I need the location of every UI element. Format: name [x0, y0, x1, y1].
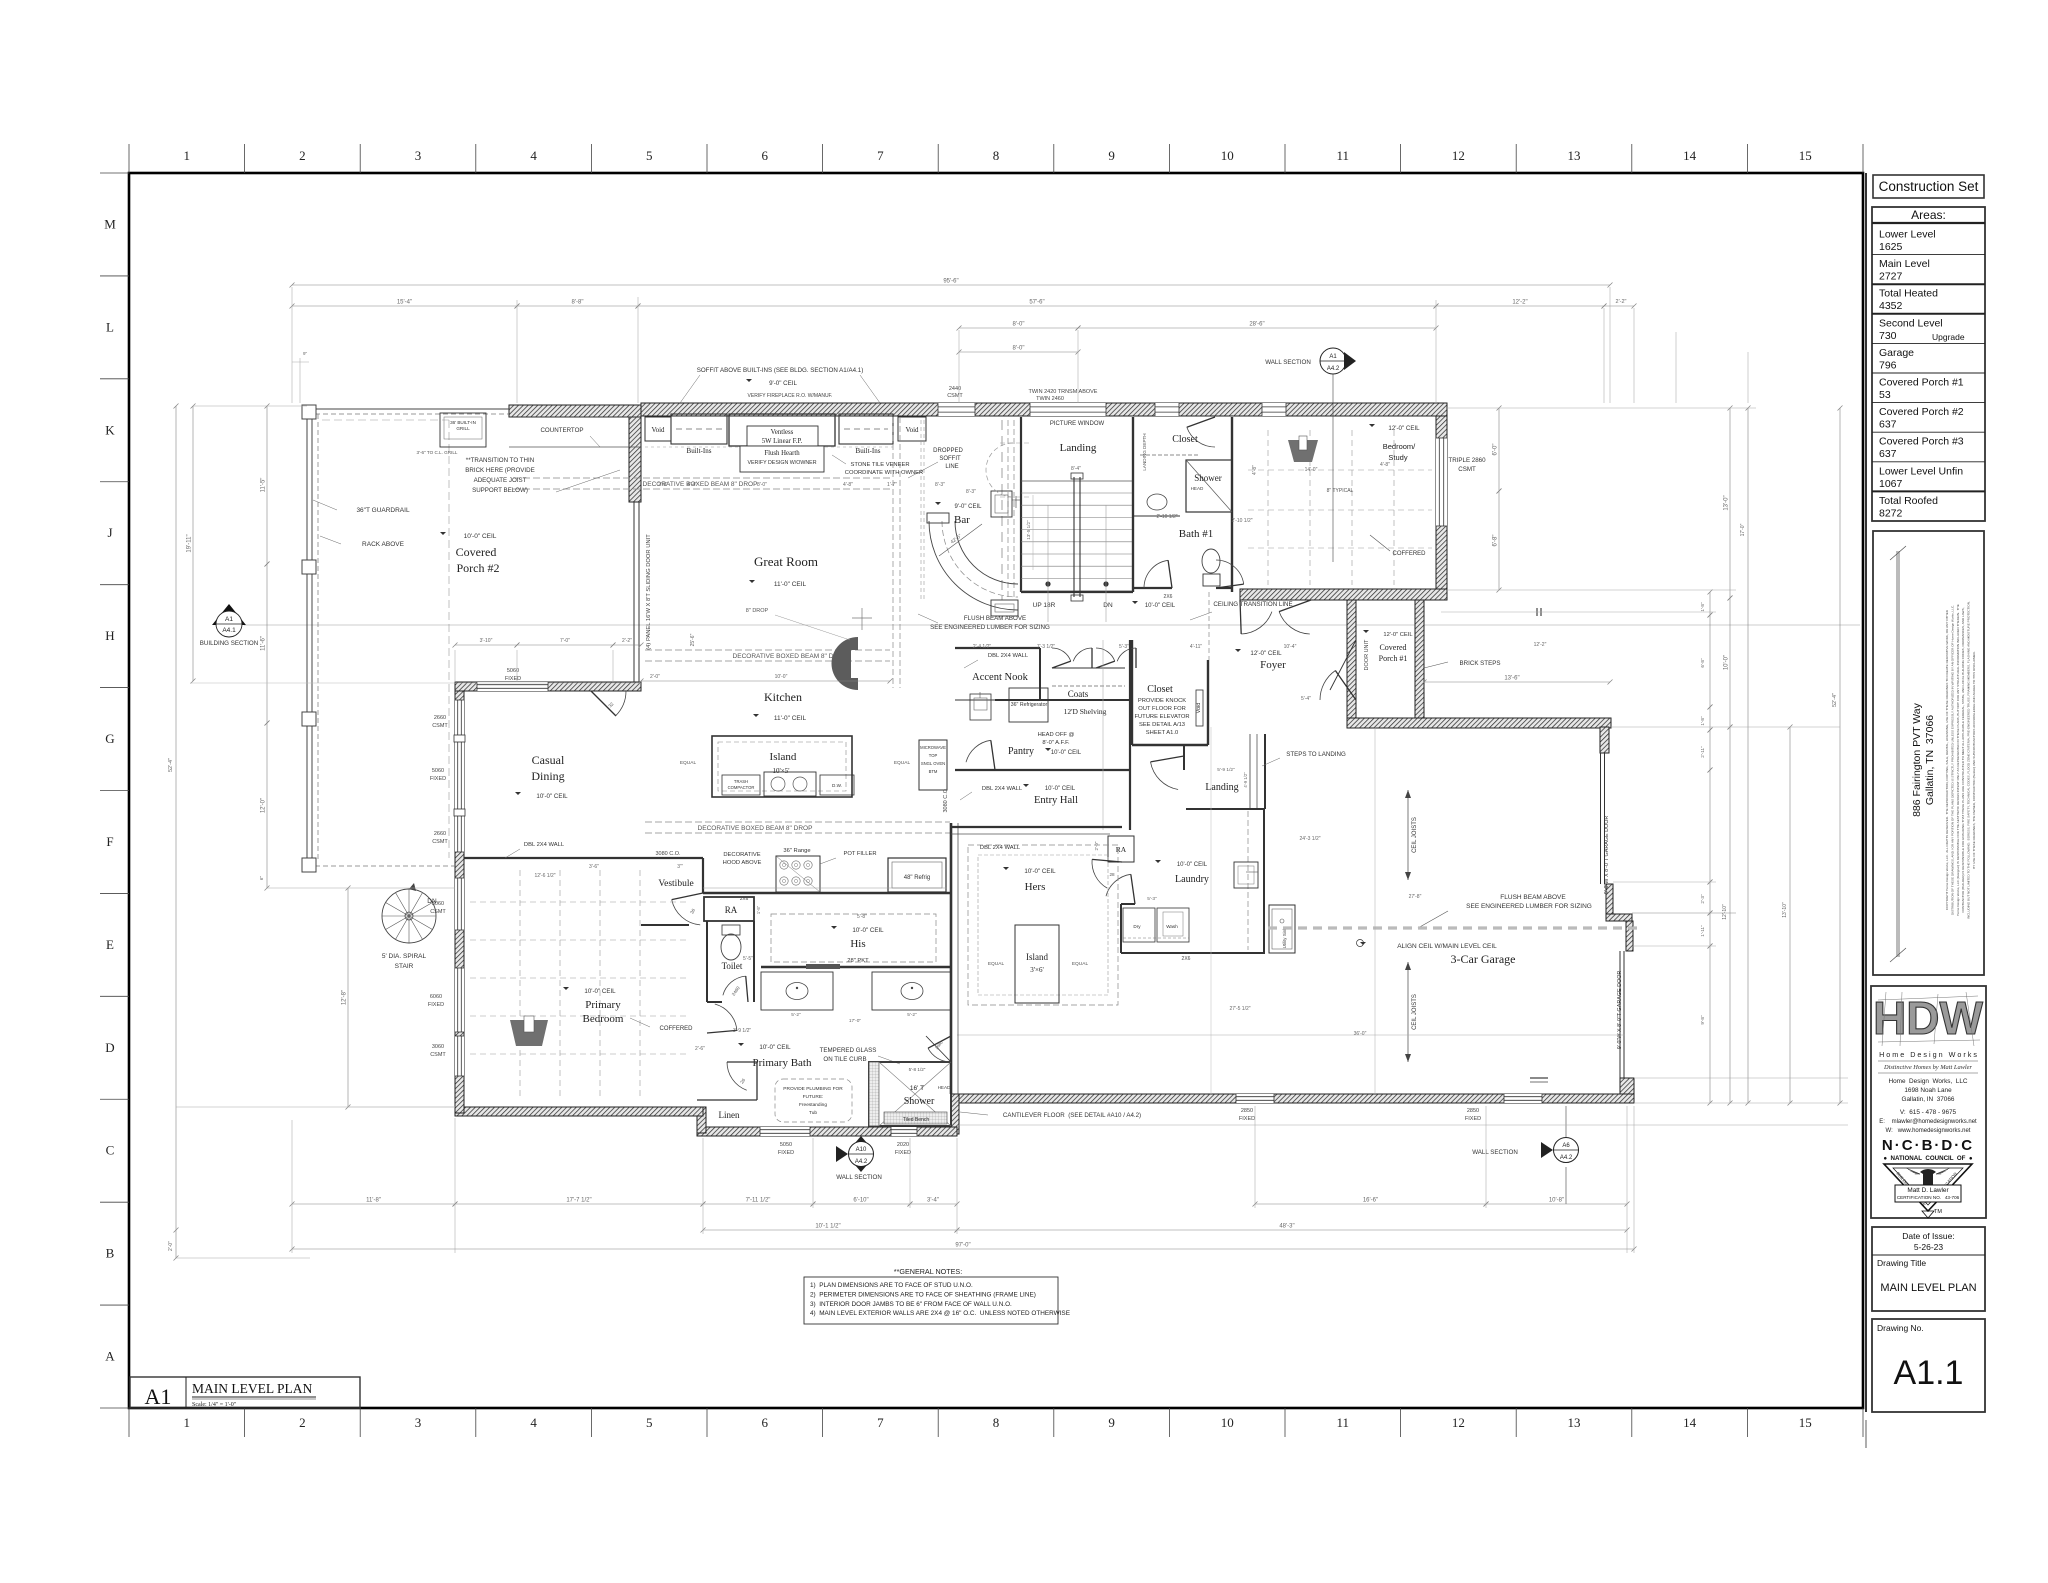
svg-text:637: 637 [1879, 419, 1897, 431]
ceiling transition dashed [1208, 592, 1210, 660]
svg-text:● NATIONAL COUNCIL OF ●: ● NATIONAL COUNCIL OF ● [1883, 1155, 1973, 1162]
svg-text:2020: 2020 [897, 1142, 909, 1148]
svg-text:28: 28 [1109, 872, 1115, 877]
svg-text:INCLUDING BUT NOT LIMITED TO T: INCLUDING BUT NOT LIMITED TO THE FOLLOWI… [1967, 601, 1971, 919]
svg-text:9'-0" CEIL: 9'-0" CEIL [769, 380, 797, 387]
svg-text:9: 9 [1108, 148, 1115, 163]
svg-text:Primary Bath: Primary Bath [753, 1057, 812, 1069]
svg-text:12'-10": 12'-10" [1722, 904, 1728, 920]
svg-text:2'-10 1/2": 2'-10 1/2" [1156, 514, 1177, 520]
svg-text:Gallatin, TN 37066: Gallatin, TN 37066 [1924, 715, 1936, 805]
svg-text:DROPPED: DROPPED [933, 448, 963, 454]
svg-text:3'-10": 3'-10" [480, 638, 493, 644]
svg-text:Built-Ins: Built-Ins [687, 447, 712, 455]
svg-text:6: 6 [762, 148, 769, 163]
svg-text:SEE ENGINEERED LUMBER FOR SIZI: SEE ENGINEERED LUMBER FOR SIZING [1466, 903, 1592, 910]
svg-text:Ventless: Ventless [771, 429, 794, 436]
svg-text:3'×6': 3'×6' [1030, 966, 1043, 974]
svg-text:BY USE OF THESE DRAWINGS, THE: BY USE OF THESE DRAWINGS, THE OWNER, CON… [1972, 651, 1976, 869]
svg-text:Kitchen: Kitchen [764, 690, 802, 704]
fireplace [729, 414, 835, 446]
svg-text:Home Design Works, LLC: Home Design Works, LLC [1888, 1078, 1967, 1085]
svg-text:8'-0": 8'-0" [1013, 322, 1025, 328]
svg-text:V: 615 - 478 - 9675: V: 615 - 478 - 9675 [1900, 1109, 1957, 1116]
front door leaf [1330, 640, 1356, 690]
svg-text:12'-0" CEIL: 12'-0" CEIL [1250, 650, 1282, 657]
svg-text:Covered: Covered [456, 545, 497, 559]
svg-text:SOFFIT ABOVE BUILT-INS (SEE BL: SOFFIT ABOVE BUILT-INS (SEE BLDG. SECTIO… [697, 367, 864, 374]
svg-text:4'-8": 4'-8" [843, 482, 853, 488]
window 5060 FIXED dining [477, 682, 548, 691]
svg-text:1625: 1625 [1879, 241, 1903, 253]
svg-text:13'-6": 13'-6" [1504, 676, 1519, 682]
svg-text:6": 6" [259, 876, 264, 881]
garage door 2 east [1619, 951, 1621, 1078]
built-ins along great room north wall [671, 414, 727, 444]
svg-text:15: 15 [1799, 1415, 1812, 1430]
svg-text:SEE ENGINEERED LUMBER FOR SIZI: SEE ENGINEERED LUMBER FOR SIZING [930, 624, 1050, 631]
svg-text:52'-4": 52'-4" [168, 758, 174, 772]
svg-text:10'-0" CEIL: 10'-0" CEIL [759, 1044, 791, 1051]
svg-text:Drawing No.: Drawing No. [1877, 1323, 1924, 1333]
svg-text:OUT FLOOR FOR: OUT FLOOR FOR [1138, 706, 1186, 712]
svg-text:Drawing Title: Drawing Title [1877, 1258, 1926, 1268]
stair handrail [1073, 477, 1075, 597]
bath door arc [715, 1004, 737, 1030]
toilet fixture [722, 925, 740, 935]
svg-text:Landing: Landing [1060, 442, 1097, 454]
svg-text:6'-10": 6'-10" [853, 1198, 868, 1204]
svg-text:8'-0": 8'-0" [757, 482, 767, 488]
svg-text:1'-11": 1'-11" [1700, 925, 1705, 937]
svg-text:5'-2": 5'-2" [791, 1012, 801, 1018]
svg-text:2'-10 1/2": 2'-10 1/2" [1231, 518, 1252, 524]
wall: primary bath south wall [697, 1127, 957, 1136]
svg-text:FIXED: FIXED [1239, 1116, 1255, 1122]
svg-text:12'-0": 12'-0" [261, 798, 267, 813]
svg-text:EQUAL: EQUAL [988, 961, 1005, 967]
svg-text:Second Level: Second Level [1879, 317, 1943, 329]
svg-text:DECORATIVE: DECORATIVE [723, 852, 760, 858]
svg-text:CSMT: CSMT [430, 909, 446, 915]
svg-text:4: 4 [530, 148, 537, 163]
svg-text:9'-0" CEIL: 9'-0" CEIL [955, 504, 983, 510]
svg-text:Tiled Bench: Tiled Bench [903, 1117, 929, 1123]
svg-text:CSMT: CSMT [432, 839, 448, 845]
bedroom study coffered grid [1267, 430, 1269, 585]
svg-text:M: M [104, 216, 116, 231]
ceil joists arrows [1407, 790, 1409, 880]
wall: garage east top stub [1600, 727, 1609, 753]
svg-text:CSMT: CSMT [1458, 466, 1476, 473]
svg-text:RACK ABOVE: RACK ABOVE [362, 541, 405, 548]
svg-text:9'-0"W X 8'-0"T GARAGE DOOR: 9'-0"W X 8'-0"T GARAGE DOOR [1617, 971, 1623, 1050]
svg-text:2440: 2440 [949, 386, 961, 392]
svg-text:1698 Noah Lane: 1698 Noah Lane [1904, 1087, 1952, 1094]
svg-text:ALIGN CEIL W/MAIN LEVEL CEIL: ALIGN CEIL W/MAIN LEVEL CEIL [1397, 943, 1497, 950]
svg-text:TEMPERED GLASS: TEMPERED GLASS [820, 1047, 877, 1054]
utility sink [1269, 905, 1295, 953]
kitchen counter dashes upper [645, 446, 893, 448]
svg-text:8" DROP: 8" DROP [746, 608, 769, 614]
svg-text:9: 9 [1108, 1415, 1115, 1430]
svg-text:12: 12 [1452, 148, 1465, 163]
wall: garage south wall [957, 1094, 1634, 1103]
svg-text:28'-6": 28'-6" [1249, 322, 1264, 328]
svg-text:TWIN 2460: TWIN 2460 [1036, 396, 1064, 402]
svg-text:7'-11 1/2": 7'-11 1/2" [746, 1198, 771, 1204]
svg-text:Lower Level: Lower Level [1879, 229, 1936, 241]
sliding door west of great room [633, 502, 635, 682]
svg-text:PROVIDE KNOCK: PROVIDE KNOCK [1138, 698, 1186, 704]
right dimension lines [1498, 408, 1500, 491]
svg-text:POT FILLER: POT FILLER [843, 851, 876, 857]
svg-text:48" Refrig: 48" Refrig [904, 875, 930, 881]
svg-text:FLUSH BEAM ABOVE: FLUSH BEAM ABOVE [1500, 894, 1566, 901]
spiral stair [382, 889, 436, 943]
range [776, 856, 820, 892]
svg-text:12'-0" CEIL: 12'-0" CEIL [1383, 632, 1413, 638]
svg-text:5-26-23: 5-26-23 [1914, 1242, 1944, 1252]
svg-text:Matt D. Lawler: Matt D. Lawler [1907, 1187, 1949, 1194]
svg-text:36"T GUARDRAIL: 36"T GUARDRAIL [356, 507, 410, 514]
window 2850 FIXED garage east [1504, 1094, 1542, 1103]
svg-text:5060: 5060 [432, 768, 444, 774]
svg-text:2'-0": 2'-0" [168, 1241, 174, 1251]
svg-text:25'-6": 25'-6" [690, 633, 696, 646]
svg-text:SOFFIT: SOFFIT [939, 456, 961, 462]
svg-text:VERIFY DESIGN W/OWNER: VERIFY DESIGN W/OWNER [747, 460, 816, 466]
svg-text:CEILING TRANSITION LINE: CEILING TRANSITION LINE [1213, 601, 1292, 608]
svg-text:8'-3": 8'-3" [935, 482, 945, 488]
titleblock: date / drawing title [1872, 1227, 1985, 1311]
svg-text:Void: Void [651, 426, 665, 434]
svg-text:3'-4": 3'-4" [927, 1198, 939, 1204]
svg-text:11'-6": 11'-6" [261, 636, 267, 651]
kitchen island [712, 736, 852, 797]
svg-text:Tub: Tub [809, 1110, 817, 1116]
island appliances [722, 775, 760, 795]
wall section marker bottom right [1565, 1106, 1567, 1137]
bar quarter-circle counter [929, 521, 1018, 610]
svg-text:2'-8": 2'-8" [658, 482, 668, 488]
svg-text:GRILL: GRILL [456, 426, 470, 431]
svg-text:2'-4 1/2": 2'-4 1/2" [973, 644, 992, 650]
svg-text:5'-9 1/2": 5'-9 1/2" [1217, 767, 1235, 773]
svg-text:SUPPORT BELOW): SUPPORT BELOW) [472, 487, 528, 494]
svg-text:3080 C.O.: 3080 C.O. [655, 851, 681, 857]
svg-text:17'-7 1/2": 17'-7 1/2" [566, 1198, 591, 1204]
svg-text:MAIN LEVEL PLAN: MAIN LEVEL PLAN [1880, 1282, 1976, 1294]
svg-text:10'-0" CEIL: 10'-0" CEIL [1024, 868, 1056, 875]
svg-text:12'D Shelving: 12'D Shelving [1064, 707, 1107, 716]
titleblock: HDW logo box [1871, 986, 1986, 1218]
fridge [888, 858, 946, 892]
svg-text:Bedroom: Bedroom [583, 1013, 624, 1025]
svg-text:Coats: Coats [1068, 689, 1089, 699]
svg-text:Vestibule: Vestibule [658, 879, 693, 889]
laundry [1186, 808, 1265, 810]
svg-text:COFFERED: COFFERED [660, 1026, 694, 1032]
svg-text:HEAD: HEAD [938, 1085, 951, 1090]
svg-text:Gallatin, IN 37066: Gallatin, IN 37066 [1902, 1096, 1955, 1103]
svg-text:FUTURE ELEVATOR: FUTURE ELEVATOR [1134, 714, 1189, 720]
svg-text:Home Design Works, LLC (Design: Home Design Works, LLC (Designer) IS RES… [1956, 604, 1960, 916]
svg-text:8" TYPICAL: 8" TYPICAL [1327, 488, 1354, 494]
svg-text:3080 C.O.: 3080 C.O. [943, 787, 949, 813]
svg-text:Covered Porch #1: Covered Porch #1 [1879, 377, 1964, 389]
titleblock: Areas table [1872, 207, 1985, 521]
svg-text:G: G [105, 731, 114, 746]
svg-text:ON TILE CURB: ON TILE CURB [823, 1056, 866, 1063]
svg-text:A1: A1 [225, 616, 233, 623]
svg-text:Closet: Closet [1147, 684, 1173, 695]
svg-text:2'-2": 2'-2" [1616, 299, 1627, 305]
svg-text:2'-2": 2'-2" [622, 638, 632, 644]
svg-text:2'-0": 2'-0" [650, 674, 660, 680]
foyer double doors [1241, 612, 1272, 634]
svg-text:10'×5': 10'×5' [773, 767, 790, 775]
window twin 2460 picture window [1030, 403, 1106, 416]
vanities [761, 972, 833, 1010]
svg-text:Scale: 1/4" = 1'-0": Scale: 1/4" = 1'-0" [192, 1402, 237, 1408]
svg-text:CSMT: CSMT [947, 393, 963, 399]
window triple 2860 CSMT [1436, 438, 1447, 526]
svg-text:A4.2: A4.2 [1327, 366, 1340, 372]
svg-text:Island: Island [770, 751, 797, 763]
svg-text:CSMT: CSMT [432, 723, 448, 729]
pantry south wall [955, 769, 1130, 771]
svg-text:Garage: Garage [1879, 347, 1914, 359]
svg-text:Landing: Landing [1205, 782, 1238, 793]
svg-text:(4) PANEL 16'W X 8'T SLIDING D: (4) PANEL 16'W X 8'T SLIDING DOOR UNIT [646, 534, 652, 650]
wall: garage east bottom stub [1620, 1078, 1634, 1103]
sheet border frame [129, 173, 1863, 1408]
svg-text:B: B [106, 1246, 115, 1261]
svg-text:Pantry: Pantry [1008, 746, 1034, 757]
svg-text:WALL SECTION: WALL SECTION [836, 1174, 882, 1181]
svg-text:11'-0" CEIL: 11'-0" CEIL [774, 581, 807, 588]
svg-text:Construction Set: Construction Set [1879, 179, 1979, 194]
svg-text:FLUSH BEAM ABOVE: FLUSH BEAM ABOVE [964, 615, 1026, 622]
svg-text:12'-0" CEIL: 12'-0" CEIL [1388, 425, 1420, 432]
svg-text:12'-2": 12'-2" [1534, 642, 1547, 648]
svg-text:Porch #2: Porch #2 [457, 561, 500, 575]
svg-text:Accent Nook: Accent Nook [972, 672, 1028, 683]
laundry tub fixture [1234, 862, 1258, 888]
svg-text:FIXED: FIXED [895, 1150, 911, 1156]
svg-text:BTM: BTM [929, 769, 938, 774]
svg-text:2660: 2660 [434, 715, 446, 721]
svg-text:DECORATIVE BOXED BEAM 8" DROP: DECORATIVE BOXED BEAM 8" DROP [698, 825, 813, 832]
svg-text:COUNTERTOP: COUNTERTOP [540, 427, 583, 434]
building section marker left [212, 604, 246, 625]
svg-text:3060: 3060 [432, 1044, 444, 1050]
svg-text:1'-8": 1'-8" [1700, 602, 1705, 612]
svg-text:5W Linear F.P.: 5W Linear F.P. [762, 438, 803, 445]
svg-text:Freestanding: Freestanding [799, 1102, 827, 1108]
svg-text:8'-0": 8'-0" [1013, 346, 1025, 352]
svg-text:10'-0" CEIL: 10'-0" CEIL [1045, 786, 1076, 792]
top grid ticks and numbers [128, 144, 130, 173]
top dimension lines [292, 284, 1610, 286]
svg-text:STAIR: STAIR [395, 963, 414, 970]
svg-text:10: 10 [1221, 148, 1234, 163]
svg-text:2660: 2660 [434, 831, 446, 837]
svg-text:2850: 2850 [1241, 1108, 1253, 1114]
svg-text:Foyer: Foyer [1260, 659, 1286, 671]
svg-text:Dry: Dry [1133, 924, 1141, 929]
svg-text:4'-4": 4'-4" [687, 482, 697, 488]
svg-text:Linen: Linen [719, 1110, 740, 1120]
svg-text:95'-6": 95'-6" [943, 279, 958, 285]
wall: garage east jog [1606, 884, 1613, 921]
RA toilet box [704, 897, 754, 921]
svg-text:Toilet: Toilet [722, 961, 743, 971]
svg-text:13'-0": 13'-0" [1724, 495, 1730, 510]
svg-text:1'-8": 1'-8" [1700, 716, 1705, 726]
svg-text:36' BUILT-IN: 36' BUILT-IN [450, 420, 476, 425]
dropped soffit dashed lines near bar [892, 417, 894, 688]
svg-text:TM: TM [1934, 1209, 1942, 1215]
newel dots [1045, 581, 1050, 586]
wall: bedroom-bath step [697, 1107, 706, 1133]
svg-text:52'-4": 52'-4" [1832, 693, 1838, 707]
wall: porch1 east wall [1415, 600, 1424, 727]
bar soffit arc [986, 443, 1013, 497]
svg-text:STONE TILE VENEER: STONE TILE VENEER [850, 462, 909, 468]
svg-text:5'-8": 5'-8" [857, 914, 867, 920]
garage door 1 east [1600, 753, 1602, 884]
svg-text:COMPACTOR: COMPACTOR [728, 785, 755, 790]
svg-text:11'-5": 11'-5" [261, 478, 267, 493]
svg-text:2850: 2850 [1467, 1108, 1479, 1114]
svg-text:UP 18R: UP 18R [1033, 602, 1056, 609]
svg-text:A1: A1 [1329, 354, 1337, 360]
svg-text:Entry Hall: Entry Hall [1034, 795, 1078, 806]
his bath [771, 914, 936, 962]
svg-text:36'-0": 36'-0" [1354, 1031, 1367, 1037]
wall section marker bottom center [860, 1136, 862, 1141]
svg-text:N·C·B·D·C: N·C·B·D·C [1882, 1137, 1974, 1154]
bedroom north wall [464, 857, 641, 859]
svg-text:TWIN 2420 TRNSM ABOVE: TWIN 2420 TRNSM ABOVE [1029, 389, 1098, 395]
svg-text:DN: DN [1103, 602, 1113, 609]
coats closet [1039, 648, 1041, 700]
svg-text:24'-3 1/2": 24'-3 1/2" [1299, 836, 1320, 842]
svg-text:10'-0" CEIL: 10'-0" CEIL [584, 988, 616, 995]
decorative boxed beam bands great room [513, 477, 890, 479]
island 3x6 [1015, 925, 1059, 1003]
wall: west exterior wall [455, 688, 464, 1113]
svg-text:Bar: Bar [954, 514, 970, 526]
svg-text:K: K [105, 422, 115, 437]
svg-text:48'-3": 48'-3" [1279, 1224, 1294, 1230]
flush beam dashed gray [1268, 926, 1640, 929]
svg-text:L: L [106, 319, 114, 334]
svg-text:4352: 4352 [1879, 300, 1903, 312]
svg-text:36" Refrigerator: 36" Refrigerator [1011, 702, 1048, 708]
svg-text:Covered Porch #2: Covered Porch #2 [1879, 406, 1964, 418]
mid pocket wall [761, 966, 951, 968]
svg-text:SEE DETAIL A/13: SEE DETAIL A/13 [1139, 722, 1185, 728]
svg-text:730: 730 [1879, 330, 1897, 342]
bottom dimension lines [292, 1203, 455, 1205]
svg-text:EQUAL: EQUAL [680, 760, 697, 766]
grill box on porch [440, 413, 486, 447]
svg-text:2X6: 2X6 [1164, 594, 1173, 600]
svg-text:27'-8": 27'-8" [1409, 894, 1422, 900]
svg-text:12'-2": 12'-2" [1512, 300, 1527, 306]
svg-text:Primary: Primary [585, 999, 621, 1011]
window 3060 CSMT upper [455, 878, 464, 930]
svg-text:Casual: Casual [532, 753, 565, 767]
svg-text:COORDINATE WITH OWNER: COORDINATE WITH OWNER [845, 470, 923, 476]
accent nook [955, 647, 1040, 649]
svg-text:8272: 8272 [1879, 507, 1903, 519]
bath1 sink [1147, 494, 1167, 510]
svg-text:HEAD OFF @: HEAD OFF @ [1038, 732, 1075, 738]
pantry [1009, 688, 1048, 722]
toilet room [706, 921, 708, 1002]
primary bedroom [519, 870, 521, 1100]
svg-text:Built-Ins: Built-Ins [856, 447, 881, 455]
porch roofline dashes [322, 419, 449, 421]
svg-text:W: www.homedesignworks.net: W: www.homedesignworks.net [1886, 1128, 1971, 1134]
svg-text:D.W.: D.W. [832, 783, 842, 788]
svg-text:EQUAL: EQUAL [1072, 961, 1089, 967]
svg-text:CSMT: CSMT [430, 1052, 446, 1058]
svg-text:3'-9 1/2": 3'-9 1/2" [733, 1028, 752, 1034]
svg-text:4'-8": 4'-8" [1380, 462, 1390, 468]
svg-text:10'-8": 10'-8" [1549, 1198, 1564, 1204]
svg-text:1'-5": 1'-5" [756, 905, 761, 914]
svg-text:CANTILEVER FLOOR (SEE DETAIL: CANTILEVER FLOOR (SEE DETAIL #A10 / A4.2… [1003, 1112, 1141, 1119]
svg-text:10'-0" CEIL: 10'-0" CEIL [1177, 862, 1208, 868]
bedroom dark fan [510, 1020, 548, 1046]
svg-text:**TRANSITION TO THIN: **TRANSITION TO THIN [466, 457, 534, 464]
svg-text:C: C [106, 1143, 115, 1158]
svg-text:DISTRIBUTION OF THESE DRAWINGS: DISTRIBUTION OF THESE DRAWINGS, AND / OR… [1950, 605, 1954, 915]
svg-text:2X6: 2X6 [1182, 956, 1191, 962]
elevator closet [1131, 640, 1133, 745]
left grid ticks and letters [100, 172, 129, 174]
svg-text:DBL 2X4 WALL: DBL 2X4 WALL [982, 786, 1023, 792]
svg-text:CERTIFICATION NO. 43-706: CERTIFICATION NO. 43-706 [1897, 1195, 1960, 1200]
svg-text:5: 5 [646, 148, 653, 163]
svg-text:Utility Sink: Utility Sink [1282, 927, 1287, 948]
svg-text:TRIPLE 2860: TRIPLE 2860 [1448, 457, 1486, 464]
svg-text:3'": 3'" [677, 864, 683, 870]
left dimension lines [175, 406, 177, 1258]
garage interior dimension cross lines [1374, 727, 1376, 1094]
interior dimension texts scattered [455, 644, 517, 646]
svg-text:1067: 1067 [1879, 478, 1903, 490]
svg-text:DECORATIVE BOXED BEAM 8" DROP: DECORATIVE BOXED BEAM 8" DROP [733, 653, 848, 660]
sheet title A1 MAIN LEVEL PLAN [130, 1377, 360, 1408]
svg-text:Closet: Closet [1172, 434, 1198, 445]
svg-text:11: 11 [1337, 148, 1350, 163]
window 2850 FIXED garage west [1236, 1094, 1274, 1103]
wall: north main wall [641, 403, 1447, 416]
stairs [1020, 417, 1022, 592]
svg-text:10'-0" CEIL: 10'-0" CEIL [536, 793, 568, 800]
titleblock: drawing number [1872, 1319, 1985, 1412]
svg-text:A1.1: A1.1 [1894, 1354, 1964, 1392]
svg-text:3: 3 [415, 1415, 422, 1430]
svg-text:CEIL JOISTS: CEIL JOISTS [1412, 994, 1418, 1030]
svg-text:7: 7 [877, 1415, 884, 1430]
